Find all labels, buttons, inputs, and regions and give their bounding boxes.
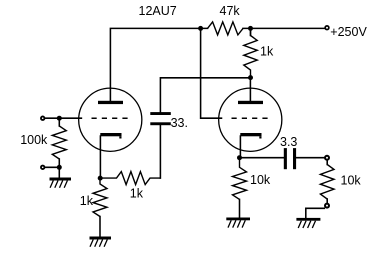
svg-text:10k: 10k — [341, 174, 362, 188]
svg-text:10k: 10k — [250, 173, 271, 187]
svg-text:1k: 1k — [130, 187, 144, 201]
svg-text:12AU7: 12AU7 — [139, 4, 177, 18]
svg-text:47k: 47k — [220, 4, 241, 18]
svg-text:33.: 33. — [171, 116, 188, 130]
svg-text:+250V: +250V — [330, 25, 367, 39]
svg-text:1k: 1k — [260, 45, 274, 59]
svg-text:100k: 100k — [20, 133, 48, 147]
svg-text:1k: 1k — [80, 194, 94, 208]
svg-text:3.3: 3.3 — [280, 135, 297, 149]
